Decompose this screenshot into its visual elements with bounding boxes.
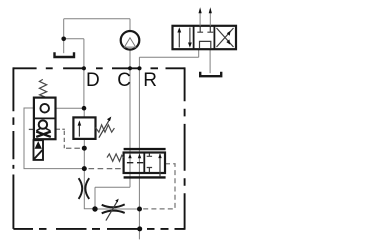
tank T1 top left [55, 52, 75, 57]
V3 spring left [107, 154, 124, 161]
enclosure dashed boundary left [12, 67, 14, 229]
compensator V2 adjust arrow [99, 118, 110, 137]
svg-text:R: R [143, 70, 157, 91]
svg-text:D: D [86, 70, 100, 91]
valve U1 divider 2 [213, 26, 215, 49]
wire D column upper [83, 39, 85, 108]
V3 left cell arrows on C and R [128, 154, 131, 159]
adjustable throttle O2 arrow [106, 201, 118, 221]
relief valve V1 cell2 cross [36, 132, 51, 137]
wire valve to tank T2 [209, 49, 211, 73]
relief valve V1 spring [39, 79, 46, 97]
V3 right cell stub top [147, 153, 152, 156]
compensator valve V2 body [73, 117, 95, 138]
solenoid A1 coil diagonal [34, 150, 42, 159]
compensator V2 spring [96, 125, 115, 132]
pilot line sequence valve right loop [142, 164, 176, 209]
fixed throttle O1 [79, 178, 90, 199]
node R boundary [137, 66, 141, 70]
svg-text:C: C [117, 70, 131, 91]
relief valve V1 body [34, 98, 56, 140]
node pilot junction [82, 146, 87, 151]
node tank branch [61, 37, 66, 42]
relief valve V1 cell1 ball [40, 104, 49, 113]
wire relief left port [24, 108, 84, 169]
wire C column long [129, 50, 131, 187]
enclosure dashed boundary top [13, 67, 184, 69]
valve U1 cell1 down arrow [189, 28, 191, 46]
sequence valve V3 body [124, 153, 165, 174]
enclosure dashed boundary bottom [13, 228, 184, 230]
wire relief right port to D node [56, 107, 85, 109]
valve U1 divider 1 [193, 26, 195, 49]
valve U1 cell2 blocked port stubs [197, 27, 213, 32]
exhaust line 2 with arrow [209, 9, 211, 26]
solenoid A1 box [34, 140, 44, 160]
pilot line node to sequence valve [89, 168, 124, 170]
exhaust line 1 with arrow [199, 9, 201, 26]
valve U1 cell2 bottom bridge [200, 41, 211, 48]
wire R column from valve [198, 49, 200, 57]
sequence valve V3 top rail [124, 148, 166, 150]
node lower D junction [82, 166, 87, 171]
sequence valve V3 divider [143, 153, 145, 174]
solenoid A1 plunger triangle [35, 141, 42, 149]
enclosure dashed boundary right [184, 67, 186, 229]
wire R horizontal [139, 56, 198, 58]
V3 right cell through line arrow [159, 154, 161, 177]
wire D column through compensator [83, 108, 85, 117]
node throttle left [92, 206, 97, 211]
node throttle right R [137, 207, 142, 212]
sequence valve V3 bottom rail [124, 176, 166, 178]
compensator V2 internal arrow [78, 124, 80, 137]
wire branch to D column [64, 38, 84, 40]
node R bottom boundary [137, 226, 142, 231]
node D boundary [82, 66, 86, 70]
wire C path drop to throttle line [94, 187, 96, 209]
valve U1 cell3 crossed arrows [217, 28, 234, 47]
node D port junction [82, 106, 87, 111]
relief valve V1 cell2 ball [39, 120, 47, 128]
pump triangle [124, 38, 135, 47]
node C boundary [128, 66, 132, 70]
adjustable throttle O2 arcs [102, 204, 125, 213]
directional valve U1 body [173, 26, 237, 49]
wire throttle line [95, 208, 140, 210]
wire vertical down to tank T1 [63, 19, 65, 53]
pilot line relief to D column [56, 129, 84, 148]
V3 right cell stub bottom [147, 168, 152, 173]
pilot stub relief left [29, 128, 34, 130]
valve U1 cell1 up arrow [178, 30, 180, 48]
wire top horizontal from node to pump [64, 18, 130, 20]
wire D column lower [84, 139, 95, 209]
wire pump drop C column [129, 19, 131, 31]
relief valve V1 cell2 seat [36, 128, 50, 131]
relief valve V1 divider [34, 117, 56, 119]
pump circle P1 [121, 31, 140, 50]
wire C path horizontal jog [95, 186, 130, 188]
tank T2 under valve [200, 72, 221, 77]
wire R column long [138, 57, 140, 239]
V3 left cell blocked dashes [127, 162, 143, 164]
